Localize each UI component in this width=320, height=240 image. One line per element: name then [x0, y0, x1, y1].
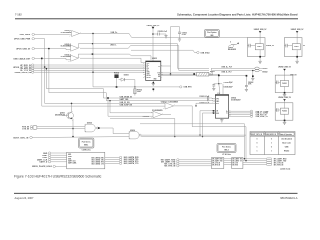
svg-text:GND: GND — [154, 79, 157, 81]
filter block FL0933 — [275, 75, 293, 92]
svg-text:UNSW_5V: UNSW_5V — [266, 45, 275, 47]
wire op2 inputs — [107, 97, 151, 116]
svg-text:FL0931: FL0931 — [257, 46, 262, 48]
svg-text:E0931: E0931 — [263, 68, 268, 70]
svg-text:August 24, 2007: August 24, 2007 — [15, 196, 34, 200]
svg-text:6: 6 — [68, 50, 69, 52]
node RTS_IN — [22, 126, 85, 130]
ground block A — [258, 56, 261, 64]
svg-text:3: 3 — [72, 111, 73, 113]
svg-text:UART_D: UART_D — [39, 161, 47, 164]
ground below U1 — [152, 81, 155, 92]
svg-text:UPOS_USB_PWR: UPOS_USB_PWR — [14, 39, 31, 41]
wire loop y118.5 — [110, 119, 175, 137]
svg-text:USB_VBUS: USB_VBUS — [20, 34, 31, 36]
power flag block D — [278, 97, 292, 109]
svg-text:RS232: RS232 — [284, 150, 289, 152]
transistor Q0932 (option) — [228, 41, 239, 51]
power flag block B — [291, 29, 305, 44]
svg-text:2: 2 — [163, 107, 164, 109]
part series box 888-1 — [79, 138, 94, 151]
svg-text:VMO: VMO — [216, 101, 219, 103]
svg-text:GND: GND — [68, 154, 71, 156]
pin numbers U2 — [212, 98, 231, 118]
capacitor C0931 — [153, 31, 167, 36]
svg-text:Schematics, Component Location: Schematics, Component Location Diagrams … — [177, 13, 298, 17]
svg-text:U? 40 Univ: U? 40 Univ — [222, 153, 231, 156]
svg-text:2: 2 — [212, 98, 213, 100]
wire pack to ferrites — [209, 67, 255, 75]
node USB_VBUS input — [20, 33, 70, 36]
wire USB_D+ from buffer1 — [82, 32, 247, 37]
svg-text:8: 8 — [162, 76, 163, 78]
wire op1 out loop — [192, 106, 246, 161]
wire gate2 lower out — [141, 136, 175, 138]
diode D0931 — [119, 74, 135, 87]
wire vertical V2 — [45, 39, 163, 104]
svg-text:UNSW_USB_5V: UNSW_USB_5V — [254, 29, 268, 31]
svg-text:UNSW_USB_5V: UNSW_USB_5V — [278, 97, 292, 99]
power flag block C — [278, 67, 297, 81]
U2 right pins to connector bubbles — [229, 110, 269, 118]
IC U0932 RS232 transceiver — [146, 58, 161, 81]
svg-text:C2+: C2+ — [147, 68, 150, 70]
svg-text:BUS_UARTA_CTS: BUS_UARTA_CTS — [124, 162, 139, 165]
svg-text:MX_CTS: MX_CTS — [232, 162, 238, 164]
ferrite bead E0931 — [255, 67, 268, 70]
svg-text:USB: USB — [285, 146, 289, 148]
svg-text:UNSW_USB_5V: UNSW_USB_5V — [278, 67, 292, 69]
svg-text:R1I: R1I — [158, 74, 161, 76]
svg-text:FL0934: FL0934 — [282, 110, 287, 113]
svg-text:14: 14 — [229, 110, 231, 112]
svg-text:USB_RPU: USB_RPU — [184, 87, 193, 89]
power flag UNSW_USB_5V above U1 — [147, 25, 161, 61]
connector J0931 block — [67, 152, 105, 169]
svg-text:FL0933: FL0933 — [282, 83, 287, 85]
part option box 888 — [205, 30, 220, 38]
svg-text:VCC: VCC — [147, 63, 150, 65]
svg-text:USB_MODE_IN: USB_MODE_IN — [120, 97, 133, 99]
wire USB_RPU — [117, 86, 193, 89]
U1 left pin stubs — [144, 63, 145, 77]
svg-text:BOOT_CNTL_IN: BOOT_CNTL_IN — [13, 137, 28, 139]
J0931 right wires to bubbles — [105, 156, 140, 165]
svg-text:Part Option: Part Option — [207, 31, 216, 34]
junction V4 dots — [92, 33, 93, 34]
svg-text:MX_RTS_IN: MX_RTS_IN — [164, 166, 175, 168]
svg-text:47pF: 47pF — [229, 81, 233, 84]
IC U0934 USB transceiver — [214, 84, 241, 118]
wire vertical V5 — [46, 69, 103, 98]
header rule — [15, 18, 298, 20]
svg-text:USB_SHLD: USB_SHLD — [201, 52, 211, 54]
svg-text:MX_RTS_IN: MX_RTS_IN — [274, 164, 284, 166]
wire to cap C0932 — [171, 27, 180, 74]
svg-text:USB_5V_EN: USB_5V_EN — [120, 102, 131, 104]
svg-text:1: 1 — [72, 120, 73, 122]
svg-text:MX_CTS_IN: MX_CTS_IN — [212, 162, 220, 164]
svg-text:MX_UART_RXD: MX_UART_RXD — [212, 158, 222, 161]
svg-text:R2OUT: R2OUT — [147, 77, 152, 79]
wires between stacks — [224, 159, 232, 165]
svg-text:D-: D- — [226, 113, 228, 115]
svg-text:0: 0 — [271, 146, 272, 148]
wires pack to U2 with ESD caps — [209, 74, 248, 85]
label stack 1 — [211, 158, 223, 169]
svg-text:888-1: 888-1 — [84, 145, 88, 147]
U2 left-bottom pins routed left — [199, 110, 215, 137]
svg-text:5V: 5V — [303, 45, 306, 47]
ground below U2 — [220, 118, 223, 122]
svg-text:4: 4 — [212, 102, 213, 104]
node UP_CTS_5V — [20, 69, 144, 72]
svg-text:U0932: U0932 — [152, 58, 157, 60]
svg-text:BUS_UARTA_RXD: BUS_UARTA_RXD — [92, 156, 104, 159]
svg-text:C1+: C1+ — [147, 65, 150, 67]
svg-text:USB_CABLE_DET: USB_CABLE_DET — [13, 57, 31, 60]
junction squares on RPU wire — [116, 86, 118, 88]
svg-text:0.1uF: 0.1uF — [163, 31, 167, 33]
bottom-center net labels with bubbles — [161, 159, 212, 168]
svg-text:8: 8 — [79, 57, 80, 59]
node FLASH_VPP input — [16, 48, 68, 51]
node UPOS_USB_PWR input — [14, 38, 45, 41]
gate U0935 (NAND) — [85, 122, 129, 133]
wire loop y123.8 — [140, 124, 245, 159]
node MECH_PLACE — [32, 165, 67, 168]
node UNSW_RS232_EN — [15, 71, 145, 74]
svg-text:UPOS_USB_5V: UPOS_USB_5V — [16, 48, 31, 50]
svg-text:3: 3 — [212, 100, 213, 102]
svg-text:1: 1 — [257, 146, 258, 148]
svg-text:1: 1 — [257, 150, 258, 152]
svg-text:3: 3 — [230, 41, 231, 43]
ground block C — [283, 92, 286, 97]
capacitor C0933 at U2 — [199, 96, 215, 99]
svg-text:OE: OE — [216, 111, 218, 113]
svg-text:888: 888 — [210, 35, 213, 37]
svg-text:11: 11 — [229, 115, 231, 117]
svg-text:5: 5 — [130, 132, 131, 134]
capacitor C0932 — [178, 32, 187, 39]
op-amp U0933-1 — [161, 101, 193, 109]
svg-text:0.1uF: 0.1uF — [182, 34, 186, 36]
svg-text:100K: 100K — [137, 91, 142, 93]
svg-text:5113816A07: 5113816A07 — [231, 99, 241, 102]
node UP_RTS_5V — [20, 68, 144, 71]
svg-text:(addtl short): (addtl short) — [280, 167, 290, 170]
filter block FL0932 — [284, 38, 306, 57]
svg-text:MX_UART_RX: MX_UART_RX — [232, 158, 241, 161]
resistor R0934 (dark) — [114, 72, 119, 87]
node USB_SHLD bubble — [197, 51, 211, 54]
svg-text:1: 1 — [271, 143, 272, 145]
resistor R0935 — [134, 87, 142, 96]
junction dot supply to pack — [170, 73, 172, 75]
svg-text:47pF: 47pF — [229, 85, 233, 88]
svg-text:2: 2 — [162, 65, 163, 67]
svg-text:888-2: 888-2 — [224, 150, 228, 152]
part series box 888-2 — [217, 144, 236, 157]
svg-text:V+: V+ — [158, 66, 160, 68]
svg-text:USB_SUSP_5V: USB_SUSP_5V — [256, 116, 269, 118]
svg-text:CONN Univ: CONN Univ — [82, 149, 91, 151]
svg-text:7: 7 — [79, 47, 80, 49]
svg-text:R2I: R2I — [158, 76, 161, 78]
node UPIOS_UP_TXD — [13, 66, 144, 69]
wire buffer3 feedback rail — [78, 54, 151, 60]
svg-text:6816532E01-A: 6816532E01-A — [280, 196, 298, 200]
svg-text:10: 10 — [68, 61, 70, 63]
svg-text:0: 0 — [271, 139, 272, 141]
svg-text:48-80558L44: 48-80558L44 — [55, 113, 65, 116]
junction V2 bus — [44, 66, 46, 68]
svg-text:1: 1 — [85, 125, 86, 127]
svg-text:Figure 7-103 HUF4017H USB/RS2: Figure 7-103 HUF4017H USB/RS232/SB9600 S… — [14, 175, 102, 179]
footer rule — [14, 192, 298, 194]
ground at C0932 — [178, 39, 181, 41]
ferrite bead E0932 — [255, 69, 268, 73]
svg-text:48-869655: 48-869655 — [228, 48, 236, 51]
svg-text:UART_SEL: UART_SEL — [120, 98, 129, 101]
ground at C0931 — [164, 34, 167, 38]
wire buffer3 out to U1 — [80, 58, 144, 62]
node BOOT_CNTL_IN — [13, 136, 129, 139]
U1 right pin stubs — [161, 66, 197, 76]
svg-text:USB+: USB+ — [68, 156, 72, 158]
svg-text:T1O: T1O — [157, 73, 160, 75]
junction square at pack input — [193, 73, 195, 75]
svg-text:13: 13 — [229, 112, 231, 114]
svg-text:C0934 0.1uF: C0934 0.1uF — [199, 101, 209, 104]
wire to USB_SHLD — [131, 50, 197, 52]
svg-text:R0934: R0934 — [114, 72, 119, 75]
wire RL1 — [103, 97, 207, 99]
svg-text:State of Operation: State of Operation — [280, 133, 292, 136]
junction dots on Q emitter line — [72, 128, 74, 130]
capacitor C0934 at U2 — [199, 99, 215, 105]
wire vertical V4 — [93, 34, 117, 87]
power flag block A — [254, 29, 268, 44]
junction V3 start — [48, 48, 50, 50]
wires to right bubbles — [243, 158, 287, 167]
svg-text:USB_MODE_IN: USB_MODE_IN — [266, 134, 276, 136]
svg-text:USB_D-_FLT: USB_D-_FLT — [221, 72, 232, 74]
svg-text:7-182: 7-182 — [15, 12, 22, 16]
svg-text:MX_RTS: MX_RTS — [232, 164, 238, 166]
svg-text:USB-: USB- — [68, 158, 72, 160]
capacitor C0937 47pF — [245, 82, 254, 92]
junction V1 row4 — [41, 58, 43, 60]
label stack 2 — [232, 158, 243, 169]
svg-text:USB_D-: USB_D- — [110, 44, 117, 46]
svg-text:Part Series: Part Series — [82, 140, 91, 143]
node CTS_IN — [22, 127, 85, 130]
svg-text:SUS: SUS — [216, 113, 219, 115]
op-amp U0931-2 buffer — [61, 44, 79, 51]
ground block D — [283, 120, 286, 125]
node UP_RXD_5V — [20, 64, 144, 67]
junction transistor collector — [71, 103, 73, 105]
op-amp U0931-1 buffer — [61, 30, 82, 36]
svg-text:12: 12 — [229, 113, 231, 115]
svg-text:Boot Code: Boot Code — [282, 142, 291, 145]
svg-text:E0932: E0932 — [263, 71, 268, 73]
transistor Q0931 — [55, 103, 73, 136]
svg-text:CTS_IN: CTS_IN — [22, 128, 29, 130]
ground block B — [295, 56, 298, 64]
svg-text:MX_RTS_IN: MX_RTS_IN — [212, 164, 220, 166]
wire USB_D- from buffer2 — [78, 43, 209, 70]
pin numbers buffers — [67, 31, 175, 139]
svg-text:USB_D+_FLT: USB_D+_FLT — [221, 67, 233, 69]
filter block FL0931 — [247, 38, 275, 57]
svg-text:0: 0 — [257, 143, 258, 145]
junction + ground left of block C — [251, 70, 254, 81]
svg-text:UNSW_USB_5V: UNSW_USB_5V — [291, 29, 305, 31]
op-amp U0933-2 — [143, 110, 171, 118]
svg-text:Part Series: Part Series — [222, 145, 231, 148]
capacitor C0935 47pF — [212, 81, 232, 90]
svg-text:MECH_PLACE_HOLD: MECH_PLACE_HOLD — [32, 165, 53, 168]
svg-text:U0933-2: U0933-2 — [143, 116, 150, 118]
svg-text:RCV: RCV — [216, 103, 219, 105]
svg-text:R1OUT: R1OUT — [147, 75, 152, 77]
svg-text:T1IN: T1IN — [147, 72, 150, 74]
wire RCV from op1 out — [196, 103, 214, 106]
svg-text:VPO: VPO — [216, 99, 219, 101]
pin numbers U1 — [143, 62, 163, 78]
resistor network R0931 (hatched) — [197, 71, 215, 76]
svg-text:Unit Disabled: Unit Disabled — [281, 138, 292, 141]
svg-text:14: 14 — [162, 72, 164, 74]
wire vertical V1 — [42, 58, 163, 106]
wire vertical V3 — [49, 49, 106, 101]
gate U0936 (NAND) — [129, 130, 246, 139]
truth table — [250, 132, 295, 155]
svg-text:4: 4 — [69, 36, 70, 38]
op-amp U0931-3 buffer — [61, 54, 79, 61]
wire RL2 — [106, 100, 207, 102]
filter block FL0934 — [275, 103, 293, 120]
svg-text:D+: D+ — [226, 111, 228, 113]
svg-text:FL0932: FL0932 — [294, 46, 299, 48]
svg-text:BOOT_CNTL_IN: BOOT_CNTL_IN — [251, 134, 262, 136]
J0931 left pin nets — [37, 152, 67, 164]
svg-text:0: 0 — [257, 139, 258, 141]
svg-text:D0931: D0931 — [124, 74, 129, 76]
svg-text:USB_SUSP_EN: USB_SUSP_EN — [120, 105, 133, 107]
svg-text:T2IN: T2IN — [147, 73, 150, 75]
svg-text:1: 1 — [271, 150, 272, 152]
svg-text:UNSW_RS232_EN: UNSW_RS232_EN — [15, 72, 32, 74]
node UPOS_USB_EN input — [13, 57, 68, 60]
